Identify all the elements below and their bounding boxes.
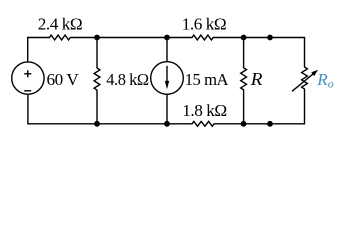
svg-text:R: R [250, 69, 263, 89]
svg-text:2.4 kΩ: 2.4 kΩ [38, 15, 82, 34]
svg-text:60 V: 60 V [47, 70, 80, 89]
svg-text:1.8 kΩ: 1.8 kΩ [182, 101, 226, 120]
svg-text:15 mA: 15 mA [185, 70, 229, 89]
svg-text:4.8 kΩ: 4.8 kΩ [106, 70, 149, 89]
svg-text:1.6 kΩ: 1.6 kΩ [182, 15, 226, 34]
